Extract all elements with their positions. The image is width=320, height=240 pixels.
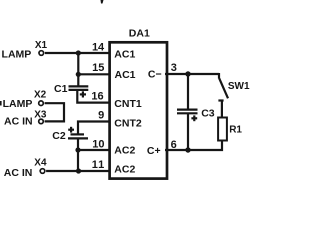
- svg-text:X3: X3: [34, 109, 47, 120]
- svg-text:X2: X2: [34, 90, 47, 101]
- svg-text:16: 16: [91, 91, 103, 103]
- svg-text:R1: R1: [229, 125, 242, 136]
- svg-text:CNT2: CNT2: [114, 118, 142, 130]
- svg-text:AC IN: AC IN: [4, 167, 33, 179]
- IC DA1 box: [110, 42, 167, 178]
- svg-text:X1: X1: [35, 40, 48, 51]
- node junction pin3/C3: [185, 71, 190, 76]
- wire X2-X3 bracket: [45, 103, 64, 121]
- svg-text:AC1: AC1: [114, 49, 135, 61]
- wire C2 down rail: [77, 138, 79, 171]
- svg-text:CNT1: CNT1: [114, 98, 142, 110]
- terminal X1: [35, 40, 48, 55]
- capacitor C3: [177, 107, 215, 121]
- wire pin 10: [78, 149, 110, 151]
- svg-text:C3: C3: [201, 107, 215, 119]
- capacitor C2: [52, 127, 88, 142]
- svg-text:14: 14: [92, 42, 105, 54]
- svg-text:LAMP: LAMP: [3, 98, 33, 110]
- wire junction down to C3: [187, 74, 189, 110]
- wire rail down to C1: [77, 53, 79, 86]
- wire C3 to bottom rail: [187, 113, 189, 151]
- node junction pin11/X4: [76, 168, 81, 173]
- switch SW1: [218, 73, 250, 118]
- svg-text:LAMP: LAMP: [2, 48, 32, 60]
- svg-text:SW1: SW1: [228, 81, 250, 92]
- svg-text:3: 3: [171, 62, 177, 74]
- terminal X3: [34, 109, 47, 123]
- svg-text:11: 11: [92, 159, 105, 171]
- svg-text:AC IN: AC IN: [4, 116, 33, 128]
- node junction pin6/C3: [185, 147, 190, 152]
- wire C1 to pin 16: [77, 90, 110, 102]
- svg-text:AC1: AC1: [115, 69, 136, 81]
- svg-text:10: 10: [92, 139, 104, 151]
- svg-text:C−: C−: [148, 69, 162, 81]
- wire pin 9 with corner to C2: [78, 122, 110, 135]
- node junction pin15 rail: [76, 72, 81, 77]
- wire R1 to pin 6: [165, 141, 222, 151]
- terminal X2: [34, 90, 47, 106]
- wire pin 3: [165, 73, 219, 75]
- svg-text:9: 9: [98, 109, 104, 121]
- svg-text:C1: C1: [54, 83, 68, 95]
- svg-text:DA1: DA1: [129, 28, 150, 40]
- wire X4 to pin 11: [46, 170, 110, 172]
- svg-text:C+: C+: [147, 145, 161, 157]
- capacitor C1: [54, 83, 88, 97]
- svg-text:X4: X4: [34, 158, 47, 169]
- svg-text:AC2: AC2: [114, 164, 135, 176]
- svg-text:15: 15: [92, 62, 104, 74]
- resistor R1: [218, 118, 242, 141]
- wire X1 to pin 14: [45, 52, 110, 54]
- node junction pin14 rail: [76, 50, 81, 55]
- wire pin 15: [78, 73, 110, 75]
- terminal X4: [34, 158, 47, 174]
- stray mark left edge: [0, 101, 2, 106]
- node junction pin10: [75, 147, 80, 152]
- svg-text:AC2: AC2: [114, 145, 135, 157]
- stray mark top edge: [101, 0, 104, 4]
- svg-text:C2: C2: [52, 130, 66, 142]
